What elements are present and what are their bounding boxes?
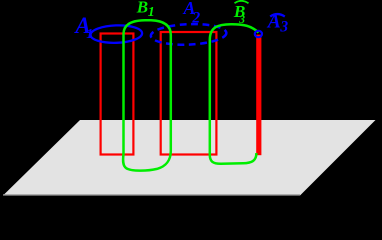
curve B3hat (green curve through flat handle H3) (210, 24, 259, 164)
svg-text:3: 3 (279, 18, 288, 35)
svg-text:3: 3 (238, 14, 245, 26)
curve A1 (blue solid ellipse) (90, 25, 142, 44)
handle H2 (red rectangle) (161, 32, 217, 155)
curve B1 (green loop over handles 1-2) (123, 20, 171, 170)
curve A3hat (small blue circle at top of flat handle) (255, 31, 262, 37)
svg-text:1: 1 (86, 26, 93, 41)
handle H1 (red rectangle) (101, 34, 134, 155)
curve A2 (blue dashed ellipse) (150, 23, 226, 46)
svg-text:1: 1 (148, 5, 155, 20)
plane front edge (3, 194, 300, 196)
svg-text:2: 2 (191, 9, 200, 26)
handle H3 (flat, thick red bar) (256, 35, 261, 156)
svg-text:B: B (136, 0, 148, 17)
label B3hat hat (235, 1, 249, 3)
plane (gray parallelogram) (3, 120, 376, 196)
label A3hat hat (270, 14, 285, 17)
